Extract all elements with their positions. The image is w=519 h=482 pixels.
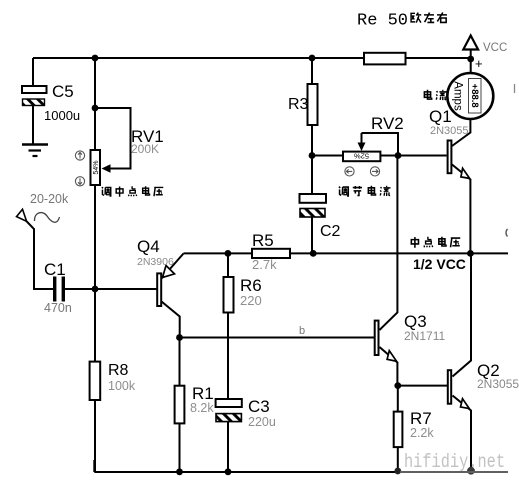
svg-text:200K: 200K: [131, 142, 159, 156]
wire node b: Q4 collector to Q3 base: [180, 337, 375, 339]
svg-text:VCC: VCC: [483, 42, 507, 54]
wire input node down through R8 to bottom rail: [94, 289, 96, 471]
svg-text:100k: 100k: [108, 379, 136, 393]
RV1 terminal marker down: [75, 177, 84, 186]
transistor Q3 2N1711 (NPN): [375, 312, 446, 361]
wire bottom rail (ground return): [94, 460, 400, 472]
wire midpoint rail 1/2 VCC: [290, 252, 508, 254]
svg-text:C1: C1: [44, 260, 66, 279]
svg-text:52%: 52%: [354, 151, 369, 160]
svg-text:20-20k: 20-20k: [30, 192, 69, 206]
wire C2 leads: [311, 156, 313, 254]
svg-text:54%: 54%: [93, 160, 100, 174]
transistor Q1 2N3055 (NPN output): [429, 107, 470, 178]
svg-text:8.2k: 8.2k: [190, 401, 214, 415]
svg-text:+: +: [475, 56, 483, 71]
resistor R3: [288, 84, 318, 125]
svg-text:Re 50: Re 50: [357, 12, 408, 31]
wire RV2 row: node to pot, pot to Q1 base: [312, 155, 447, 157]
svg-text:2.2k: 2.2k: [410, 426, 434, 440]
wire C5 bottom lead to ground: [32, 106, 34, 144]
capacitor C1 470n: [44, 260, 72, 315]
potentiometer RV2: [343, 114, 404, 161]
wire input source lead: [27, 221, 53, 289]
svg-text:+88.8: +88.8: [469, 84, 480, 108]
ground: [22, 145, 48, 157]
svg-text:Amps: Amps: [452, 81, 464, 111]
wire Q3 emitter down to node: [380, 347, 398, 386]
svg-text:C2: C2: [320, 223, 341, 240]
wire Q2 emitter to bottom rail: [453, 396, 472, 472]
right edge output mark: [506, 229, 508, 237]
svg-text:2N3055: 2N3055: [430, 125, 469, 137]
wire Q4 emitter to R5 left node: [184, 252, 252, 254]
wire RV1 pot bottom to input node: [94, 185, 96, 289]
resistor R8 100k: [90, 362, 136, 400]
svg-text:2N1711: 2N1711: [404, 329, 445, 343]
svg-text:C3: C3: [248, 397, 270, 416]
capacitor C5 (1000u polarized): [22, 82, 80, 123]
wire Q3 collector up to RV2 node: [380, 156, 398, 331]
svg-text:Q1: Q1: [429, 107, 452, 126]
wire Q4 emitter diagonal: [162, 253, 184, 278]
label 电流 (ammeter): [424, 90, 446, 100]
label Re 50欧左右: [357, 12, 447, 31]
wire C5 top lead: [32, 58, 34, 86]
wire R3 branch: rail to R3, R3 to RV2 node: [311, 58, 313, 156]
label 调中点电压: [102, 186, 164, 196]
wire RV1 branch vertical (top rail to pot): [94, 58, 96, 150]
wire R1 branch to bottom rail: [179, 338, 181, 472]
svg-text:2.7k: 2.7k: [252, 257, 277, 272]
RV2 terminal marker right: [370, 167, 379, 176]
wire RV1 wiper loop: [95, 108, 131, 169]
svg-text:2N3906: 2N3906: [137, 256, 174, 268]
resistor R6 220: [224, 276, 262, 313]
wire Q3 emitter node to Q2 base: [398, 385, 447, 387]
potentiometer RV1 200K: [91, 127, 164, 185]
wire Q1 emitter down to midpoint: [452, 165, 470, 254]
label 调节电流: [339, 186, 391, 196]
wire top rail: [33, 57, 471, 59]
svg-text:1000u: 1000u: [44, 108, 80, 123]
wire Q1 collector to ammeter: [452, 119, 470, 146]
transistor Q2 2N3055 (NPN output): [448, 361, 519, 409]
svg-text:R3: R3: [288, 96, 309, 113]
capacitor C3 220u: [216, 397, 276, 429]
resistor Re (50 ohm) on top rail: [364, 53, 406, 65]
RV2 terminal marker left: [345, 167, 354, 176]
svg-text:R8: R8: [108, 362, 129, 379]
svg-text:b: b: [299, 325, 305, 337]
svg-text:hifidiy.net: hifidiy.net: [404, 451, 505, 473]
resistor R1 8.2k: [175, 384, 215, 423]
resistor R5 2.7k: [252, 231, 290, 272]
wire C1 right to node and Q4 base: [65, 288, 157, 290]
svg-text:220: 220: [240, 293, 262, 308]
wire RV2 wiper: [362, 133, 399, 156]
svg-text:RV2: RV2: [371, 114, 404, 133]
svg-text:2N3055: 2N3055: [477, 377, 519, 391]
svg-text:Q4: Q4: [137, 237, 160, 256]
transistor Q4 2N3906 (PNP): [137, 237, 175, 306]
wire Q4 collector diagonal down: [162, 302, 180, 338]
resistor R7 2.2k: [394, 409, 435, 447]
wire R7 branch to bottom rail: [397, 386, 399, 471]
solder junction dots: [92, 55, 475, 476]
label 中点电压 midpoint: [411, 237, 460, 248]
svg-text:1/2 VCC: 1/2 VCC: [413, 256, 466, 272]
capacitor C2: [300, 194, 341, 240]
wire ammeter top to VCC node: [470, 50, 472, 73]
ammeter (Amps +88.8): [447, 73, 493, 119]
svg-text:220u: 220u: [248, 415, 276, 429]
wire bottom rail right segment (faded): [400, 471, 508, 473]
wire R6 branch down through C3 to bottom rail: [227, 253, 229, 471]
RV1 terminal marker up: [75, 151, 84, 160]
input source 20-20k: [17, 192, 69, 222]
svg-text:C5: C5: [52, 82, 74, 101]
svg-text:470n: 470n: [44, 301, 72, 315]
wire Q2 collector up to midpoint: [453, 253, 472, 376]
svg-text:R5: R5: [252, 231, 274, 250]
VCC supply arrow: [463, 36, 507, 72]
